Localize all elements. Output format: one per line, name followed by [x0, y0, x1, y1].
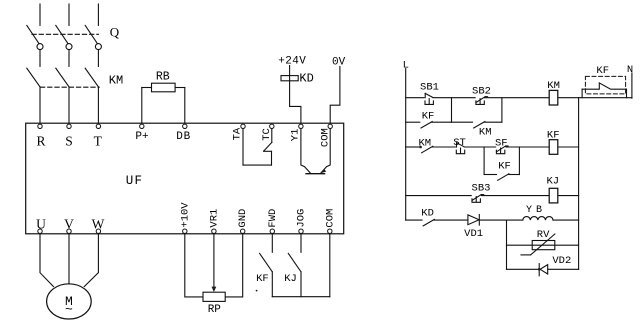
- transistor Y1 output: [301, 129, 330, 174]
- diode VD1: [468, 215, 479, 226]
- svg-text:VR1: VR1: [208, 209, 220, 228]
- wire RB to DB: [184, 88, 186, 124]
- svg-text:KF: KF: [547, 129, 560, 141]
- svg-text:KM: KM: [109, 74, 123, 88]
- label KM coil: [547, 80, 560, 92]
- wire phase L2 mid: [68, 50, 70, 67]
- svg-text:KM: KM: [418, 137, 431, 149]
- wire row1: [406, 97, 632, 99]
- svg-text:0V: 0V: [332, 57, 346, 69]
- terminal W: [92, 217, 105, 234]
- svg-text:YB: YB: [526, 205, 546, 216]
- wire +24V to Y1: [290, 66, 301, 124]
- wire N bus: [631, 73, 633, 98]
- label KF (row1b): [422, 110, 435, 122]
- svg-text:RV: RV: [537, 229, 550, 241]
- svg-text:R: R: [36, 133, 45, 148]
- pushbutton ST (NC): [456, 143, 464, 154]
- relay contact KF (jog seal): [498, 174, 509, 181]
- svg-text:RB: RB: [156, 70, 170, 83]
- svg-text:~: ~: [65, 302, 73, 317]
- wire RB to P+: [141, 88, 143, 124]
- wire VD2 branch: [507, 268, 579, 270]
- label KJ (JOG): [284, 273, 297, 285]
- node C drop: [483, 147, 485, 175]
- label RV: [537, 229, 550, 241]
- label +24V: [278, 56, 306, 68]
- wire VR1 wiper: [212, 234, 217, 292]
- wire phase L1 mid: [39, 50, 41, 67]
- label VD2: [552, 255, 571, 267]
- relay contact KF (fault, dashed box): [582, 76, 626, 97]
- svg-text:ST: ST: [453, 137, 466, 149]
- svg-text:V: V: [64, 217, 74, 232]
- linkage Q (dashed): [32, 33, 98, 35]
- terminal T: [94, 124, 103, 148]
- label KF (FWD): [256, 273, 269, 285]
- svg-text:Q: Q: [110, 25, 120, 40]
- node E drop: [506, 220, 508, 269]
- wire branch row1b: [406, 121, 502, 123]
- wire L2 to S: [68, 87, 70, 123]
- label KM (seal-in): [479, 127, 492, 139]
- varistor RV: [521, 234, 555, 255]
- svg-text:TA: TA: [232, 127, 244, 140]
- label VD1: [464, 228, 483, 240]
- svg-text:KD: KD: [299, 72, 313, 86]
- terminal GND: [237, 209, 249, 234]
- terminal U: [36, 217, 46, 234]
- disconnect switch Q: [27, 25, 102, 49]
- wire FWD/JOG common: [272, 296, 330, 298]
- relay contact TA-TC: [243, 129, 272, 165]
- svg-text:W: W: [92, 217, 105, 232]
- label KF (dashed): [596, 65, 609, 77]
- wire right bus: [578, 98, 580, 270]
- label KD: [299, 72, 313, 86]
- stray dot: [256, 290, 258, 292]
- wire U to motor: [40, 234, 54, 287]
- wire row2: [406, 146, 579, 148]
- svg-text:KF: KF: [498, 161, 511, 173]
- wire L1 to R: [39, 87, 41, 123]
- wire phase L2 top: [68, 4, 70, 25]
- relay coil KD: [281, 76, 298, 81]
- relay contact KD: [423, 219, 434, 226]
- svg-text:SB2: SB2: [472, 85, 491, 97]
- wire left bus L: [405, 69, 407, 221]
- svg-text:GND: GND: [237, 209, 249, 228]
- svg-text:SB1: SB1: [420, 81, 439, 93]
- pushbutton SF (NO jog): [496, 146, 508, 154]
- node A drop: [451, 98, 453, 123]
- wire +10V to RP: [185, 234, 203, 297]
- svg-text:KF: KF: [596, 65, 609, 77]
- brake solenoid YB: [523, 217, 553, 221]
- wire 0V to COM: [330, 67, 340, 124]
- relay contact KJ (JOG): [288, 234, 301, 297]
- label ST: [453, 137, 466, 149]
- svg-text:UF: UF: [126, 174, 143, 188]
- wire row4: [406, 219, 579, 221]
- pushbutton SB3 (NO): [472, 195, 484, 203]
- label SB2: [472, 85, 491, 97]
- label KM: [109, 74, 123, 88]
- svg-text:T: T: [94, 133, 103, 148]
- wire GND to RP: [225, 234, 243, 297]
- label L: [403, 59, 409, 71]
- label RB: [156, 70, 170, 83]
- svg-text:RP: RP: [208, 304, 222, 316]
- pushbutton SB2 (NO start): [476, 97, 488, 105]
- terminal +10V: [179, 202, 191, 234]
- wire L3 to T: [97, 87, 99, 123]
- label KM (row2): [418, 137, 431, 149]
- svg-text:SB3: SB3: [472, 183, 491, 195]
- label SF: [495, 138, 508, 150]
- contact KM (aux row2): [422, 146, 433, 153]
- label SB3: [472, 183, 491, 195]
- svg-text:VD2: VD2: [552, 255, 571, 267]
- svg-text:KM: KM: [479, 127, 492, 139]
- svg-text:KF: KF: [256, 273, 269, 285]
- svg-text:KF: KF: [422, 110, 435, 122]
- pushbutton SB1 (NC stop): [425, 93, 433, 104]
- svg-text:P+: P+: [135, 131, 148, 143]
- svg-text:DB: DB: [176, 131, 191, 143]
- svg-text:JOG: JOG: [296, 209, 308, 228]
- svg-text:S: S: [65, 133, 73, 148]
- terminal S: [65, 124, 73, 148]
- motor M: [47, 284, 92, 319]
- junction dot row2: [419, 146, 422, 149]
- wire phase L3 mid: [97, 50, 99, 67]
- label KJ coil: [546, 176, 559, 188]
- label SB1: [420, 81, 439, 93]
- svg-text:Y1: Y1: [289, 129, 301, 142]
- wire phase L3 top: [97, 4, 99, 25]
- potentiometer RP: [203, 292, 225, 301]
- svg-text:KM: KM: [547, 80, 560, 92]
- wire row3: [406, 195, 579, 197]
- contactor KM main contacts: [27, 68, 99, 87]
- label KD (row4): [421, 207, 434, 219]
- relay coil KJ: [549, 188, 558, 203]
- svg-text:KD: KD: [421, 207, 434, 219]
- wire V to motor: [68, 234, 70, 284]
- terminal VR1: [208, 209, 220, 234]
- wire W to motor: [84, 234, 98, 287]
- wire branch row2b: [484, 174, 519, 176]
- terminal JOG: [296, 209, 308, 234]
- terminal TA: [232, 124, 246, 140]
- svg-text:VD1: VD1: [464, 228, 483, 240]
- label N: [627, 64, 633, 76]
- label YB: [526, 205, 546, 216]
- svg-text:KJ: KJ: [546, 176, 559, 188]
- diode VD2: [538, 264, 548, 276]
- terminal P+: [135, 124, 148, 143]
- wire phase L1 top: [39, 4, 41, 25]
- terminal TC: [261, 124, 274, 141]
- label KF coil: [547, 129, 560, 141]
- contact KM (seal-in): [474, 122, 485, 129]
- label 0V: [332, 57, 346, 69]
- terminal FWD: [267, 209, 279, 234]
- svg-text:COM: COM: [319, 128, 331, 147]
- svg-text:KJ: KJ: [284, 273, 297, 285]
- terminal V: [64, 217, 74, 234]
- node B drop: [501, 98, 503, 123]
- svg-text:+10V: +10V: [179, 202, 191, 228]
- relay coil KF: [549, 140, 558, 155]
- terminal DB: [176, 124, 191, 143]
- terminal R: [36, 124, 45, 148]
- svg-text:U: U: [36, 217, 46, 232]
- relay contact KF (FWD): [260, 234, 273, 297]
- contactor coil KM: [549, 90, 558, 105]
- terminal Y1: [289, 124, 303, 141]
- svg-text:+24V: +24V: [278, 56, 306, 68]
- linkage KM (dashed): [41, 86, 100, 88]
- svg-text:SF: SF: [495, 138, 508, 150]
- resistor RB: [142, 83, 185, 92]
- label RP: [208, 304, 222, 316]
- wire COM drop: [329, 234, 331, 297]
- node D drop: [518, 147, 520, 175]
- wire RV branch: [507, 244, 579, 246]
- label Q: [110, 25, 120, 40]
- terminal COM (top): [319, 124, 332, 147]
- label KF (row2b): [498, 161, 511, 173]
- svg-text:COM: COM: [324, 209, 336, 228]
- svg-text:FWD: FWD: [267, 209, 279, 228]
- relay contact KF (parallel SB1): [421, 122, 432, 129]
- label UF: [126, 174, 143, 188]
- inverter UF box: [26, 123, 344, 234]
- terminal COM (bottom): [324, 209, 336, 234]
